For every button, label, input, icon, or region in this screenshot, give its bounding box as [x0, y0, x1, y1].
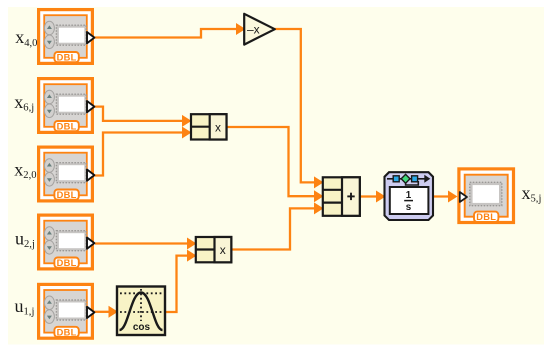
- control terminal u1,j: [37, 283, 94, 340]
- arrow into cos: [109, 306, 119, 318]
- svg-text:x: x: [220, 243, 226, 257]
- wire from x2,0 to multiply1 bottom input: [95, 133, 184, 176]
- arrow into negate: [236, 23, 246, 35]
- arrow into sum bottom: [314, 202, 324, 214]
- wire from multiply1 output to sum middle input: [227, 127, 316, 196]
- wire from cos output to multiply2 bottom input: [165, 256, 188, 312]
- svg-text:1: 1: [406, 190, 412, 201]
- svg-text:DBL: DBL: [476, 212, 496, 222]
- arrow into sum middle: [314, 190, 324, 202]
- multiply function 1: [191, 114, 227, 139]
- control terminal u2,j: [37, 214, 94, 271]
- integrator function: [385, 172, 434, 220]
- wire from sum output to integrator: [360, 195, 376, 197]
- arrow into sum top: [314, 176, 324, 188]
- wire from u1,j to cos input: [94, 311, 110, 313]
- cos function: [117, 287, 165, 336]
- arrow into multiply2 bottom: [187, 250, 197, 262]
- indicator terminal x5,j: [457, 167, 515, 224]
- svg-text:x: x: [215, 120, 221, 134]
- wire from x6,j to multiply1 top input: [95, 107, 184, 121]
- arrow into multiply1 bottom: [182, 127, 192, 139]
- svg-text:s: s: [406, 202, 412, 213]
- arrow into integrator: [376, 191, 386, 203]
- arrow into multiply1 top: [182, 115, 192, 127]
- wire from integrator output to indicator: [433, 195, 450, 197]
- wire from u2,j to multiply2 top input: [95, 242, 188, 244]
- control terminal x6,j: [37, 77, 94, 134]
- sum function: [323, 177, 360, 216]
- arrow into indicator: [448, 191, 458, 203]
- multiply function 2: [196, 237, 232, 262]
- wire from negate output to sum top input: [275, 29, 316, 182]
- wire from x4,0 to negate: [95, 29, 238, 38]
- negate function: [244, 14, 275, 45]
- svg-text:–x: –x: [247, 23, 260, 37]
- control terminal x4,0: [37, 8, 94, 65]
- wire from multiply2 output to sum bottom input: [231, 208, 315, 249]
- control terminal x2,0: [37, 146, 94, 203]
- arrow into multiply2 top: [187, 238, 197, 250]
- svg-text:cos: cos: [133, 322, 151, 333]
